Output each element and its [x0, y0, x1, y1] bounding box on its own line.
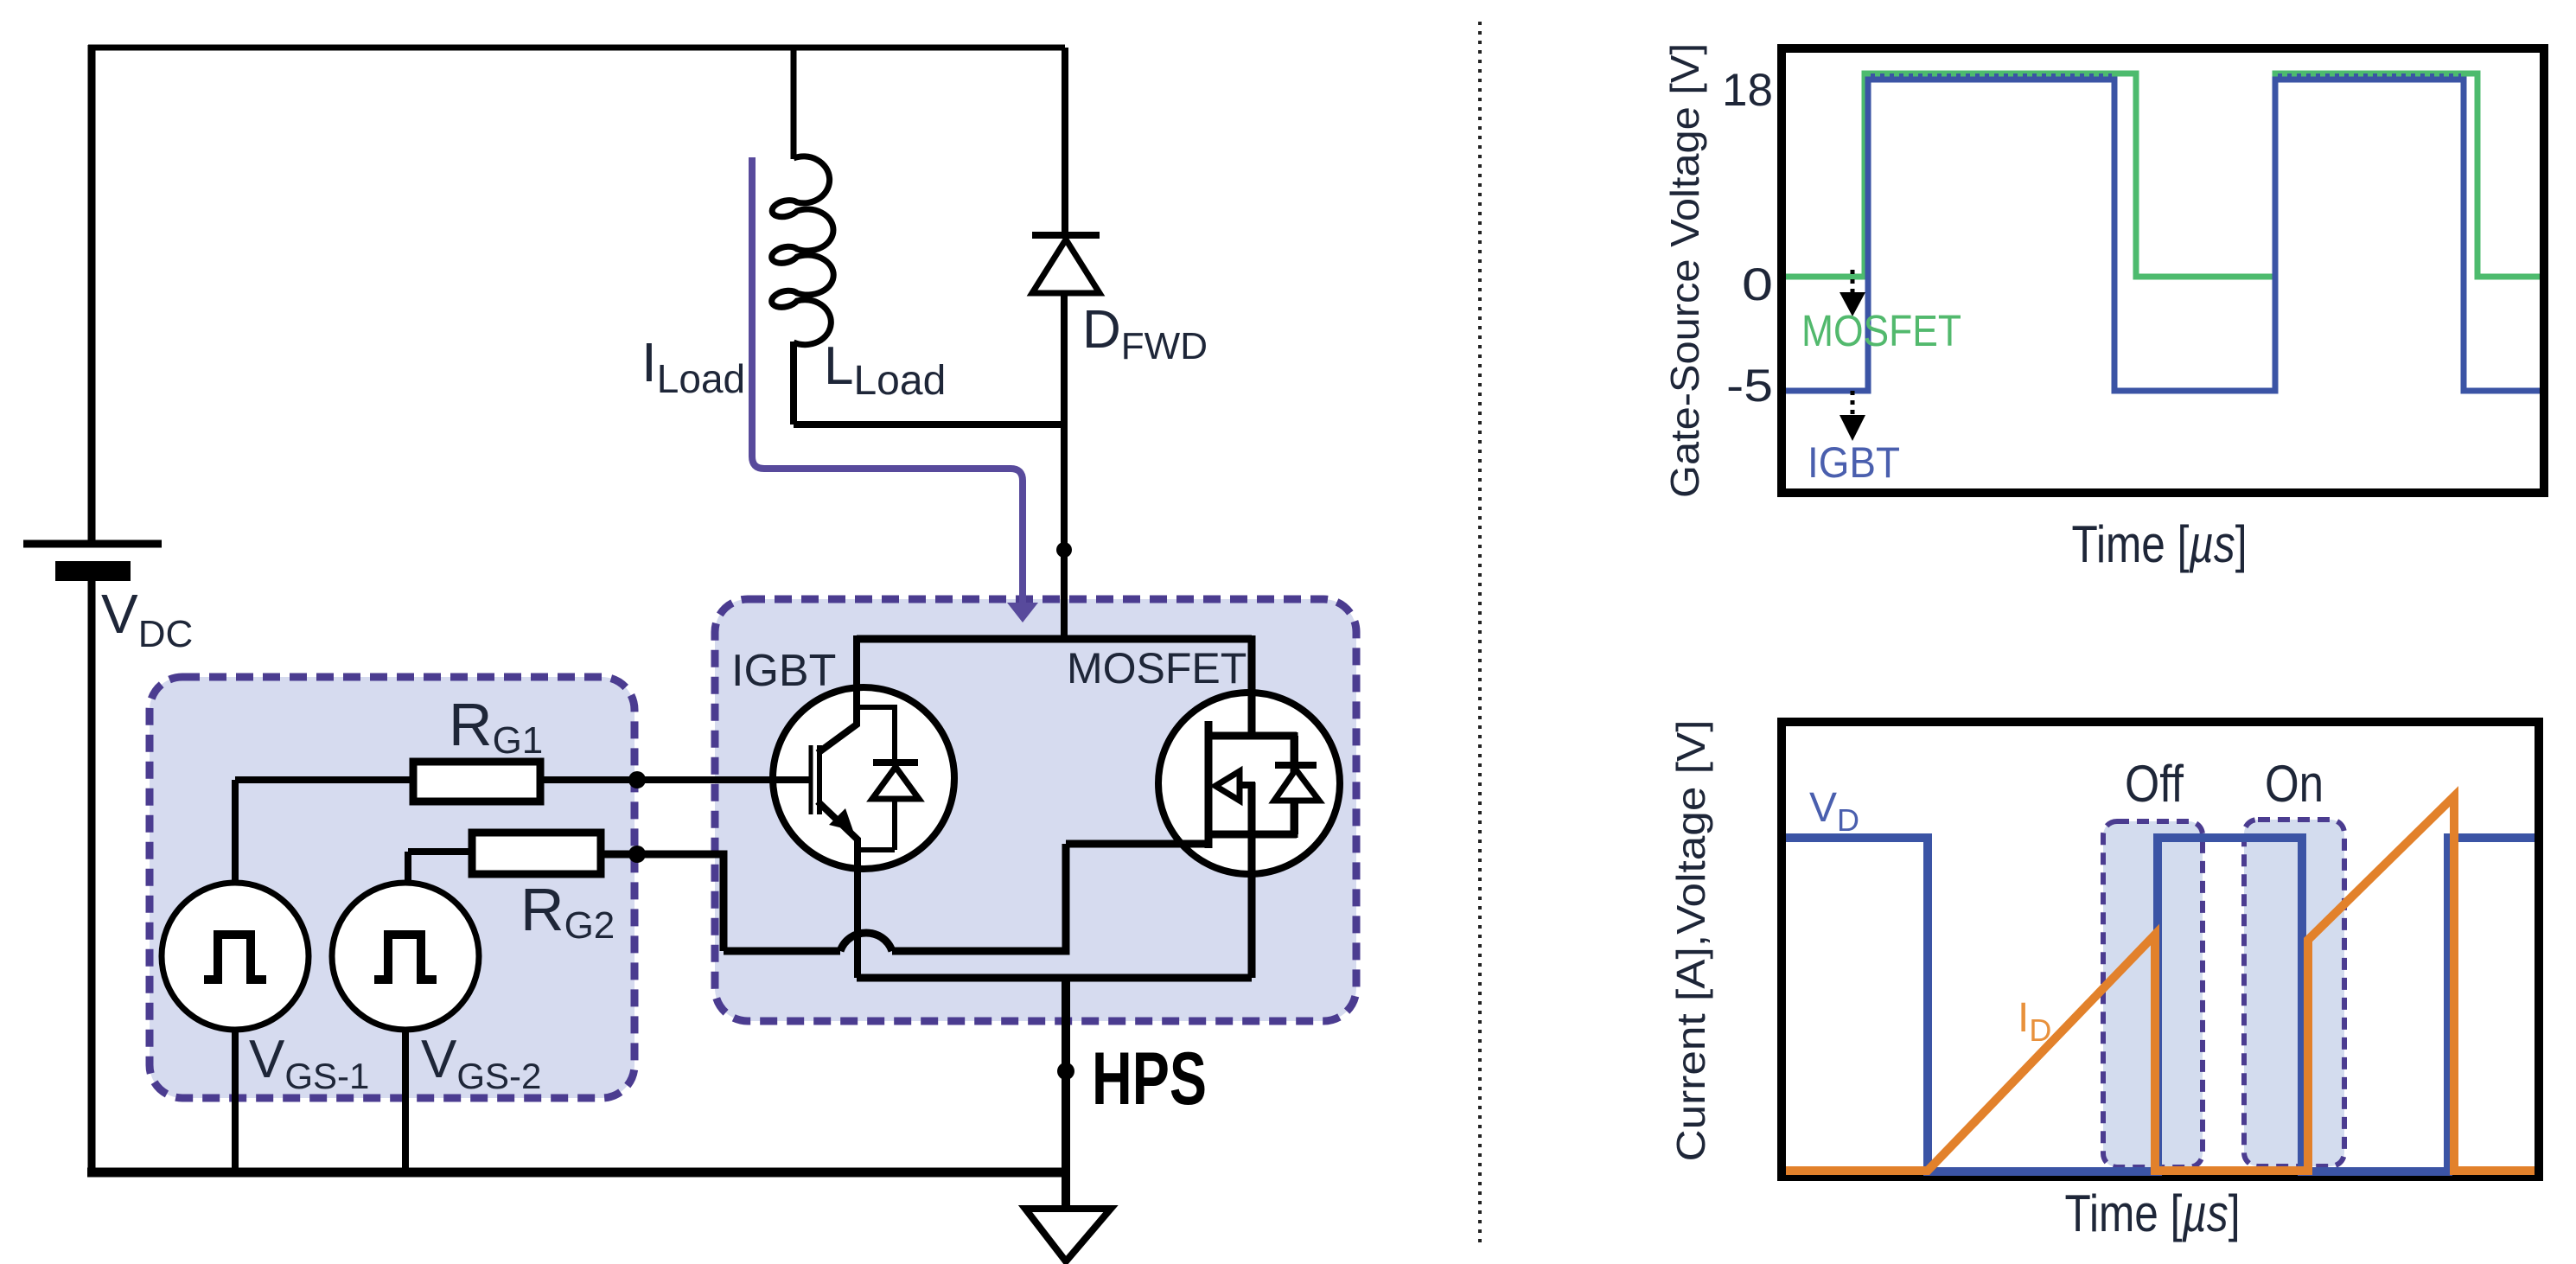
MOSFET gate bar [1205, 721, 1213, 848]
svg-text:Time [µs]: Time [µs] [2065, 1184, 2241, 1242]
wire diode to HPS [1061, 292, 1068, 642]
svg-text:18: 18 [1722, 65, 1773, 116]
IGBT internal diode [857, 705, 919, 850]
resistor R_G1 [413, 762, 540, 801]
wire bottom rail [87, 1168, 1069, 1178]
wire top rail [88, 45, 1065, 51]
IGBT collector lead [818, 635, 857, 753]
wire left rail upper [88, 45, 96, 544]
svg-text:IGBT: IGBT [731, 646, 836, 696]
IGBT gate lead wire [540, 776, 812, 783]
svg-text:-5: -5 [1726, 361, 1773, 412]
wire V_GS-2 to R_G2 [408, 852, 472, 884]
MOSFET body diode [1274, 736, 1319, 834]
MOSFET bottom stub [1208, 831, 1297, 839]
IGBT gate bar [809, 745, 813, 814]
MOSFET drain vertical [1248, 635, 1256, 736]
wire HPS top bus [857, 635, 1252, 643]
svg-text:Off: Off [2125, 755, 2184, 813]
svg-text:Current [A],Voltage [V]: Current [A],Voltage [V] [1668, 720, 1713, 1162]
MOSFET body stub + arrow [1236, 782, 1255, 788]
separator dotted line [1478, 22, 1482, 1243]
ground [1025, 1209, 1111, 1261]
blue IGBT trace [1786, 80, 2540, 391]
On shaded box [2244, 820, 2344, 1166]
IGBT emitter arrowhead [829, 808, 853, 831]
blue dash overlay plateau 2 [2278, 73, 2461, 79]
orange I_D trace [1786, 796, 2535, 1171]
wire left rail lower [88, 581, 96, 1176]
inductor L_Load [772, 156, 834, 345]
node dot R_G1 wire [628, 771, 646, 788]
dotted arrow IGBT [1851, 391, 1855, 415]
MOSFET source vertical [1248, 782, 1256, 978]
node dot diode/HPS [1056, 542, 1072, 558]
blue V_D trace [1786, 838, 2535, 1171]
wire inductor branch top [791, 48, 797, 159]
blue dash overlay plateau 1 [1871, 73, 2112, 79]
svg-text:Gate-Source Voltage [V]: Gate-Source Voltage [V] [1662, 43, 1707, 498]
wire diode branch top [1062, 48, 1068, 234]
wire R_G2 to MOSFET gate [601, 844, 1208, 951]
wire HPS output [1062, 978, 1070, 1207]
source V_GS-2 [332, 883, 479, 1030]
svg-text:MOSFET: MOSFET [1801, 306, 1961, 355]
transistor MOSFET symbol [1158, 635, 1340, 978]
MOSFET top stub [1208, 732, 1297, 740]
dotted arrow MOSFET [1851, 270, 1855, 292]
HPS dashed box [715, 599, 1356, 1021]
svg-text:HPS: HPS [1092, 1037, 1207, 1120]
chart frame [1782, 48, 2544, 493]
node HPS dot [1057, 1063, 1074, 1080]
battery V_DC [23, 544, 162, 581]
I_Load purple arrow [752, 157, 1038, 622]
transistor IGBT symbol [540, 635, 954, 978]
green MOSFET trace [1786, 73, 2540, 277]
wire V_GS-1 to R_G1 [235, 780, 413, 884]
diode D_FWD [1032, 235, 1100, 293]
svg-text:MOSFET: MOSFET [1067, 644, 1247, 693]
source V_GS-1 [162, 883, 309, 1030]
MOSFET right vertical [1291, 732, 1298, 838]
node dot R_G2 wire [628, 846, 646, 863]
IGBT body bar [817, 745, 822, 814]
svg-text:IGBT: IGBT [1808, 438, 1900, 487]
svg-text:0: 0 [1742, 259, 1773, 310]
resistor R_G2 [472, 833, 601, 874]
chart frame [1782, 722, 2539, 1177]
wire HPS bottom bus [857, 974, 1252, 982]
IGBT emitter lead [818, 801, 858, 978]
wire below inductor [794, 342, 1068, 425]
gate-driver dashed box [150, 677, 634, 1098]
Off shaded box [2103, 821, 2203, 1167]
wire V_GS-2 bottom [402, 1028, 409, 1172]
svg-text:Time [µs]: Time [µs] [2072, 515, 2248, 573]
wire V_GS-1 bottom [232, 1028, 239, 1172]
svg-text:On: On [2265, 755, 2324, 813]
